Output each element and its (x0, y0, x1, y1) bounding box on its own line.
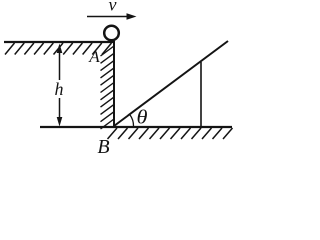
h dimension upper arrow (up) (57, 44, 63, 81)
svg-text:v: v (109, 0, 117, 15)
svg-text:A: A (88, 49, 100, 66)
pulley at A (104, 26, 119, 41)
table hatching (5, 43, 112, 55)
svg-text:h: h (55, 79, 64, 99)
h dimension lower arrow (down) (57, 98, 63, 127)
velocity arrow (87, 13, 137, 20)
wall hatching (101, 46, 115, 129)
incline hypotenuse (114, 41, 228, 126)
table surface line (4, 41, 115, 43)
incline vertical side (200, 62, 202, 127)
ground line (40, 126, 232, 128)
ground hatching (108, 128, 233, 139)
angle arc at B (130, 115, 134, 126)
svg-text:θ: θ (137, 107, 148, 129)
svg-text:B: B (97, 136, 109, 153)
wall vertical line (table right edge A-B) (113, 42, 115, 127)
